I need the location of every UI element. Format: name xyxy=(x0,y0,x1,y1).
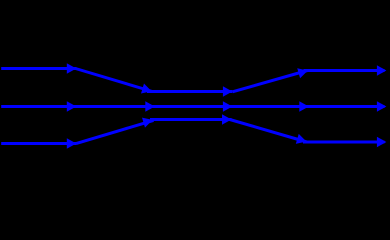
wire top diverging diagonal xyxy=(233,71,308,92)
wire top throat segment xyxy=(147,90,232,93)
arrow middle 4 xyxy=(299,101,309,111)
arrow middle 2 xyxy=(145,101,155,111)
wire bottom outlet segment xyxy=(303,141,385,144)
arrow top 3 xyxy=(223,86,233,96)
wire bottom inlet segment xyxy=(1,142,76,145)
arrow bottom 3 xyxy=(222,114,232,124)
arrow top 4 xyxy=(297,68,308,78)
arrow top 2 xyxy=(141,83,152,93)
arrow middle 1 xyxy=(67,101,77,111)
wire bottom diverging diagonal xyxy=(230,120,307,143)
arrow bottom 4 xyxy=(296,134,307,144)
arrow bottom 2 xyxy=(142,118,153,128)
arrow top 5 xyxy=(377,65,387,75)
wire bottom converging diagonal xyxy=(76,120,154,143)
wire bottom throat segment xyxy=(150,118,232,121)
wire top inlet segment xyxy=(1,67,76,70)
arrow top 1 xyxy=(67,63,77,73)
arrow bottom 5 xyxy=(377,137,387,147)
arrow middle 3 xyxy=(223,101,233,111)
arrow bottom 1 xyxy=(67,138,77,148)
wire middle streamline xyxy=(1,105,384,108)
wire top converging diagonal xyxy=(76,69,153,92)
wire top outlet segment xyxy=(304,69,385,72)
arrow middle 5 xyxy=(377,101,387,111)
